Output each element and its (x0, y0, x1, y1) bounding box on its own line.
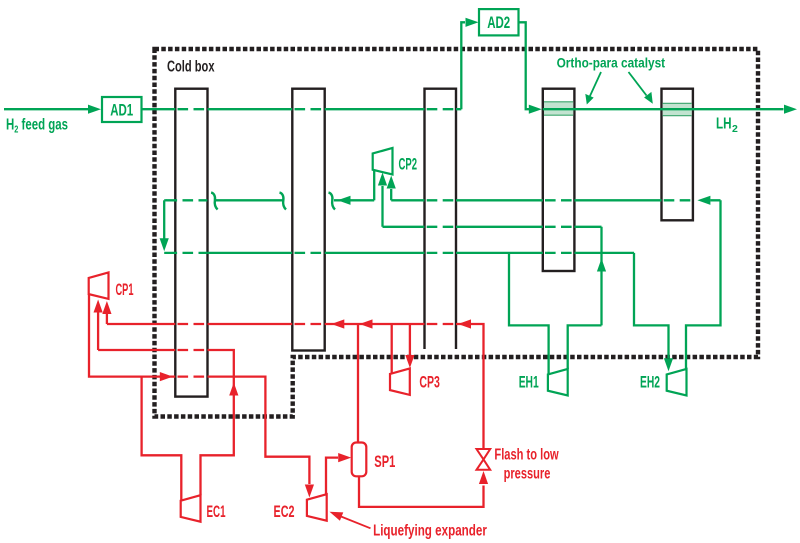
svg-text:AD2: AD2 (487, 14, 510, 32)
wire: EH2 inlet from line 3 with down arrow (634, 253, 673, 371)
wire: CP1 suction riser from R2 with up arrow (94, 300, 103, 351)
wire: CP3 suction from R1 with down arrow (405, 324, 414, 368)
wire: EC1 outlet up to R2/R3 junction with up arrow (201, 377, 239, 496)
heat exchanger column HX3 (open bottom) (425, 89, 457, 349)
svg-text:2: 2 (732, 123, 738, 135)
adsorber AD2 (479, 9, 519, 35)
wire: green return line 1 (y=200) with break marks and arrows (164, 196, 720, 205)
break squiggle 3 on line 1 (329, 193, 336, 210)
wire: CP2 suction riser from line 2 with up arrow (378, 173, 387, 227)
svg-text:EC1: EC1 (207, 503, 226, 521)
wire: EH2 outlet up to line 1 (686, 200, 721, 369)
wire: green line 3 (y=252.9) to expanders (164, 252, 634, 254)
wire: EC2 outlet to SP1 with right arrow (326, 453, 351, 494)
wire: AD2 outlet down into HX4 catalyst bed (519, 22, 542, 114)
wire: CP3 discharge to R1 (391, 324, 393, 374)
wire: red line R1 (y=324) from CP1 to flash riser (107, 319, 484, 449)
wire: main feed line AD1 to riser (dashed in HX1-HX3) (142, 108, 462, 110)
wire: CP1 suction riser from R1 with up arrow (102, 301, 111, 324)
wire: red line R3 (y=376.6) CP1 discharge to expanders (89, 294, 314, 497)
ortho-para catalyst bed in HX4 (544, 102, 573, 116)
wire: CP2 suction riser from line 1 with up arrow (387, 176, 396, 201)
expander EH2 (667, 369, 687, 396)
svg-text:Cold box: Cold box (167, 59, 215, 76)
svg-text:CP1: CP1 (116, 281, 134, 299)
expander EC2 (liquefying expander) (307, 494, 327, 521)
svg-text:Liquefying expander: Liquefying expander (373, 523, 487, 540)
wire: product line through HX4 HX5 to LH2 outlet (543, 105, 797, 114)
heat exchanger column HX5 (662, 89, 693, 221)
expander EH1 (548, 369, 568, 396)
svg-text:pressure: pressure (504, 465, 551, 482)
separator SP1 (352, 443, 367, 477)
svg-text:SP1: SP1 (374, 453, 395, 471)
svg-text:EH2: EH2 (640, 374, 660, 392)
svg-text:EC2: EC2 (274, 503, 295, 521)
wire: H2 feed gas line into AD1 (4, 105, 101, 114)
svg-text:EH1: EH1 (519, 374, 539, 392)
compressor CP2 (373, 148, 393, 175)
svg-text:Flash to low: Flash to low (494, 446, 559, 463)
wire: riser from main line up into AD2 (461, 18, 478, 110)
break squiggle 2 on line 1 (280, 193, 287, 210)
catalyst label leader arrow to HX4 bed (585, 72, 601, 105)
break squiggle 1 on line 1 (211, 193, 218, 210)
svg-text:AD1: AD1 (110, 101, 133, 119)
heat exchanger column HX2 (292, 89, 324, 351)
expander EC1 (181, 495, 201, 522)
wire: SP1 liquid outlet to flash valve with up arrow (359, 471, 488, 507)
label Liquefying expander with leader arrow (330, 512, 487, 540)
compressor CP1 (89, 272, 109, 299)
wire: EH1 outlet up to line 2 with up arrow (568, 227, 606, 369)
wire: R3 branch down to EC1 inlet (142, 377, 182, 501)
svg-text:LH: LH (716, 116, 732, 133)
svg-text:Ortho-para catalyst: Ortho-para catalyst (557, 56, 666, 71)
svg-text:CP2: CP2 (399, 156, 418, 174)
flash valve (477, 449, 491, 470)
adsorber AD1 (102, 97, 142, 122)
label Flash to low pressure (494, 446, 559, 482)
wire: red line R2 (y=350) EC1 discharge to CP1 (98, 350, 234, 377)
svg-text:CP3: CP3 (419, 374, 440, 392)
wire: EH1 inlet from line 3 (509, 253, 549, 375)
wire: green drop from line 1 to line 3 at left with down arrow (160, 200, 169, 251)
heat exchanger column HX4 (543, 89, 575, 271)
compressor CP3 (390, 368, 410, 395)
catalyst label leader arrow to HX5 bed (629, 72, 653, 104)
wire: CP2 bottom-left connection down to line 1 (373, 170, 375, 200)
wire: SP1 vapor riser to R1 (357, 324, 359, 443)
wire: green line 2 (y=226.8) CP2 suction from EH1 (383, 226, 602, 228)
cold box dashed boundary (155, 49, 759, 417)
ortho-para catalyst bed in HX5 (663, 103, 692, 116)
heat exchanger column HX1 (175, 89, 207, 397)
